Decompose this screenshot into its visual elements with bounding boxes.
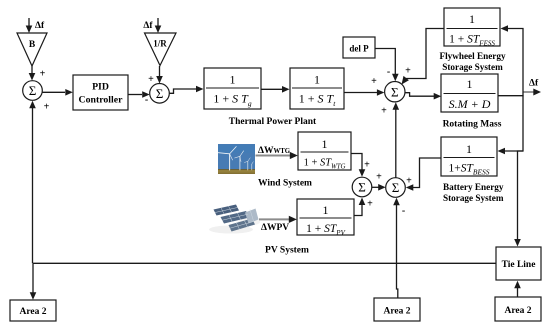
svg-text:Area 2: Area 2: [20, 307, 47, 317]
wire: wind photo to WTG block: [256, 152, 298, 159]
svg-text:Tie Line: Tie Line: [502, 260, 536, 270]
svg-text:Rotating Mass: Rotating Mass: [443, 120, 502, 130]
svg-text:Δf: Δf: [143, 21, 153, 31]
label Flywheel Energy Storage System: [439, 51, 505, 72]
svg-text:1: 1: [467, 77, 473, 91]
wire: frequency feedback down to BESS input: [498, 96, 524, 155]
svg-text:1: 1: [322, 137, 328, 151]
wire: turbine output into summer S3: [344, 89, 384, 96]
wire: Δf input arrow into bias triangle B: [26, 18, 33, 33]
Area 2 box (middle): [374, 298, 420, 321]
wire: FESS output into summer S3: [402, 29, 445, 85]
svg-text:Storage System: Storage System: [442, 62, 503, 72]
Tie Line box: [496, 247, 541, 280]
wire: bus down to Area 2 (middle): [397, 263, 398, 298]
svg-text:Flywheel Energy: Flywheel Energy: [439, 51, 505, 61]
svg-text:Σ: Σ: [391, 84, 399, 99]
summer S5: [386, 178, 406, 198]
svg-text:PV System: PV System: [265, 246, 309, 256]
wire: BESS output into summer S5: [406, 158, 441, 191]
wire: PV output into summer S4: [354, 198, 365, 216]
summer S3: [385, 82, 405, 102]
svg-text:Σ: Σ: [29, 83, 37, 98]
svg-text:del P: del P: [349, 44, 369, 54]
svg-text:Controller: Controller: [79, 95, 124, 106]
svg-text:1: 1: [323, 203, 329, 217]
svg-text:+: +: [44, 102, 50, 113]
droop gain 1/R (triangle): [145, 33, 177, 66]
governor block 1/(1+STg): [204, 68, 261, 109]
wire: S4 output into summer S5: [372, 184, 386, 191]
svg-text:+: +: [376, 172, 382, 183]
wire: bus up into S1: [29, 101, 36, 263]
svg-text:-: -: [402, 206, 405, 217]
svg-text:Δf: Δf: [35, 21, 45, 31]
svg-text:ΔWPV: ΔWPV: [261, 223, 289, 233]
svg-text:-: -: [145, 95, 148, 106]
svg-text:+: +: [406, 176, 412, 187]
summer S2: [150, 84, 170, 104]
wire: 1/R output into summer S2: [156, 66, 163, 84]
PV block 1/(1+ST_PV): [297, 199, 354, 237]
svg-text:1/R: 1/R: [153, 39, 167, 49]
svg-text:Wind System: Wind System: [258, 179, 312, 189]
wire: PID output into summer S2: [128, 91, 150, 98]
Area 2 box (right): [495, 297, 541, 321]
svg-text:1: 1: [466, 142, 472, 156]
svg-text:Σ: Σ: [156, 86, 164, 101]
svg-text:Σ: Σ: [392, 180, 400, 195]
svg-text:Area 2: Area 2: [505, 306, 532, 316]
svg-text:1: 1: [469, 12, 475, 26]
label Battery Energy Storage System: [443, 182, 504, 203]
Area 2 box (left): [10, 300, 56, 321]
svg-text:1: 1: [230, 73, 236, 87]
turbine block 1/(1+STt): [290, 68, 344, 109]
svg-text:Storage System: Storage System: [443, 193, 504, 203]
svg-text:-: -: [387, 67, 390, 78]
rotating mass block 1/(S.M+D): [441, 74, 498, 112]
svg-text:+: +: [367, 199, 373, 210]
svg-text:1: 1: [314, 73, 320, 87]
wire: WTG output into summer S4: [351, 154, 365, 177]
svg-text:Σ: Σ: [358, 180, 366, 195]
WTG block 1/(1+ST_WTG): [298, 132, 351, 171]
summer S1: [23, 81, 43, 101]
svg-text:+: +: [40, 69, 46, 80]
wire: B output into summer S1: [29, 66, 36, 81]
wire: del P into summer S3: [375, 49, 399, 82]
wire: bus down to Area 2 (left): [30, 263, 37, 299]
svg-text:+: +: [371, 76, 377, 87]
block del P: [343, 37, 375, 58]
PV photo: [209, 205, 260, 234]
wire: Δf input arrow into droop triangle: [155, 18, 162, 33]
svg-text:PID: PID: [92, 82, 109, 93]
wire: S3 output to rotating mass block: [405, 93, 441, 100]
svg-text:+: +: [405, 66, 411, 77]
svg-text:Δf: Δf: [529, 79, 539, 89]
wire: frequency feedback up to FESS input: [501, 25, 524, 96]
BESS block 1/(1+ST_BESS): [441, 137, 497, 177]
wire: S2 output to governor block: [169, 86, 203, 94]
bus wire (bottom horizontal from Tie Line): [33, 262, 496, 264]
wire: feedback down to Tie Line: [514, 151, 523, 247]
wire: S5 output up into summer S3: [393, 102, 400, 178]
wire: Area 2 (right) up into Tie Line: [514, 281, 521, 297]
bias gain B (triangle): [17, 33, 47, 66]
PID controller block: [73, 75, 128, 110]
svg-text:+: +: [381, 106, 387, 117]
svg-text:Thermal Power Plant: Thermal Power Plant: [229, 117, 317, 127]
svg-text:Battery Energy: Battery Energy: [443, 182, 504, 192]
wind photo: [218, 144, 255, 174]
wire: tie-line bus up into S5: [393, 198, 400, 264]
wire: governor to turbine block: [261, 86, 290, 93]
svg-text:+: +: [148, 74, 154, 85]
wire: rotating mass output to frequency output Δf: [498, 89, 541, 96]
FESS block 1/(1+ST_FESS): [444, 8, 500, 48]
wire: S1 output to PID controller: [42, 89, 73, 96]
svg-text:B: B: [29, 40, 36, 50]
svg-text:S.M + D: S.M + D: [449, 97, 491, 111]
svg-text:+: +: [364, 160, 370, 171]
wire: PV photo to PV block: [259, 216, 297, 223]
summer S4: [352, 177, 372, 197]
svg-text:Area 2: Area 2: [384, 307, 411, 317]
